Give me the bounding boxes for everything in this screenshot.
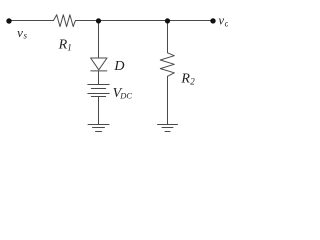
label vs bbox=[17, 25, 27, 41]
svg-text:R: R bbox=[180, 72, 190, 87]
ground right line 1 bbox=[158, 124, 178, 126]
node vs terminal dot bbox=[6, 18, 11, 23]
svg-text:s: s bbox=[24, 30, 28, 40]
battery VDC plate long top bbox=[88, 84, 109, 86]
ground left line 2 bbox=[93, 127, 105, 129]
diode D bbox=[91, 58, 107, 70]
wire top horizontal right bbox=[75, 20, 213, 22]
wire top horizontal bbox=[9, 20, 54, 22]
resistor R2 bbox=[160, 53, 174, 77]
svg-text:v: v bbox=[17, 25, 23, 40]
ground right line 3 bbox=[165, 131, 170, 133]
ground left line 1 bbox=[88, 124, 109, 126]
battery VDC plate short bottom bbox=[91, 96, 105, 98]
label R2 bbox=[180, 72, 195, 87]
battery VDC plate long bbox=[88, 93, 109, 95]
svg-text:D: D bbox=[113, 59, 124, 74]
wire diode to battery bbox=[98, 71, 100, 85]
battery VDC plate short bbox=[91, 88, 105, 90]
label VDC bbox=[113, 86, 133, 101]
svg-text:o: o bbox=[225, 18, 228, 28]
label R1 bbox=[58, 38, 72, 53]
ground right line 2 bbox=[162, 127, 173, 129]
node vo terminal dot bbox=[210, 18, 215, 23]
diode cathode bar bbox=[91, 70, 107, 72]
svg-text:v: v bbox=[219, 14, 225, 28]
label vo bbox=[219, 14, 230, 29]
svg-text:R: R bbox=[58, 38, 68, 53]
svg-text:DC: DC bbox=[119, 90, 132, 100]
node junction diode branch bbox=[96, 18, 101, 23]
wire R2 to ground bbox=[167, 76, 169, 124]
node junction R2 branch bbox=[165, 18, 170, 23]
svg-text:2: 2 bbox=[190, 77, 195, 87]
wire battery to ground bbox=[98, 97, 100, 125]
ground left line 3 bbox=[96, 131, 102, 133]
resistor R1 bbox=[54, 15, 76, 27]
svg-text:1: 1 bbox=[67, 42, 72, 52]
wire diode branch down bbox=[98, 21, 100, 59]
wire R2 branch down bbox=[167, 21, 169, 53]
